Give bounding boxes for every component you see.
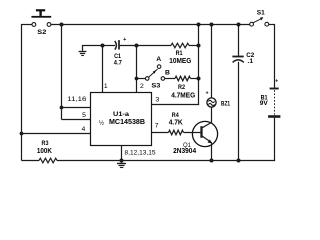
svg-text:S2: S2 [37, 29, 46, 36]
svg-text:+: + [206, 90, 209, 96]
svg-text:10MEG: 10MEG [169, 58, 191, 65]
svg-text:4.7: 4.7 [114, 59, 122, 66]
svg-text:8,12,13,15: 8,12,13,15 [125, 149, 156, 156]
svg-text:100K: 100K [37, 148, 52, 155]
svg-text:4.7K: 4.7K [169, 120, 183, 127]
svg-text:7: 7 [155, 123, 159, 130]
svg-text:BZ1: BZ1 [221, 100, 230, 107]
svg-text:R2: R2 [178, 84, 185, 91]
svg-text:4: 4 [82, 126, 86, 133]
svg-text:1: 1 [104, 83, 108, 90]
svg-text:4.7MEG: 4.7MEG [171, 92, 195, 99]
svg-text:R1: R1 [176, 50, 183, 57]
svg-text:R3: R3 [42, 140, 49, 147]
svg-text:11,16: 11,16 [67, 96, 86, 103]
svg-text:.1: .1 [248, 58, 254, 65]
svg-text:S1: S1 [257, 10, 265, 17]
svg-text:2N3904: 2N3904 [173, 148, 196, 155]
svg-text:R4: R4 [172, 112, 179, 119]
svg-text:½: ½ [99, 120, 104, 127]
svg-text:5: 5 [82, 112, 86, 119]
svg-text:MC14538B: MC14538B [109, 119, 145, 126]
svg-text:A: A [156, 56, 161, 63]
svg-text:U1-a: U1-a [113, 111, 129, 118]
svg-text:3: 3 [156, 97, 160, 104]
svg-text:B: B [165, 69, 170, 76]
svg-text:9V: 9V [260, 100, 269, 107]
svg-text:2: 2 [140, 83, 144, 90]
svg-text:+: + [275, 79, 278, 85]
svg-text:+: + [123, 37, 126, 43]
svg-text:S3: S3 [151, 82, 160, 89]
